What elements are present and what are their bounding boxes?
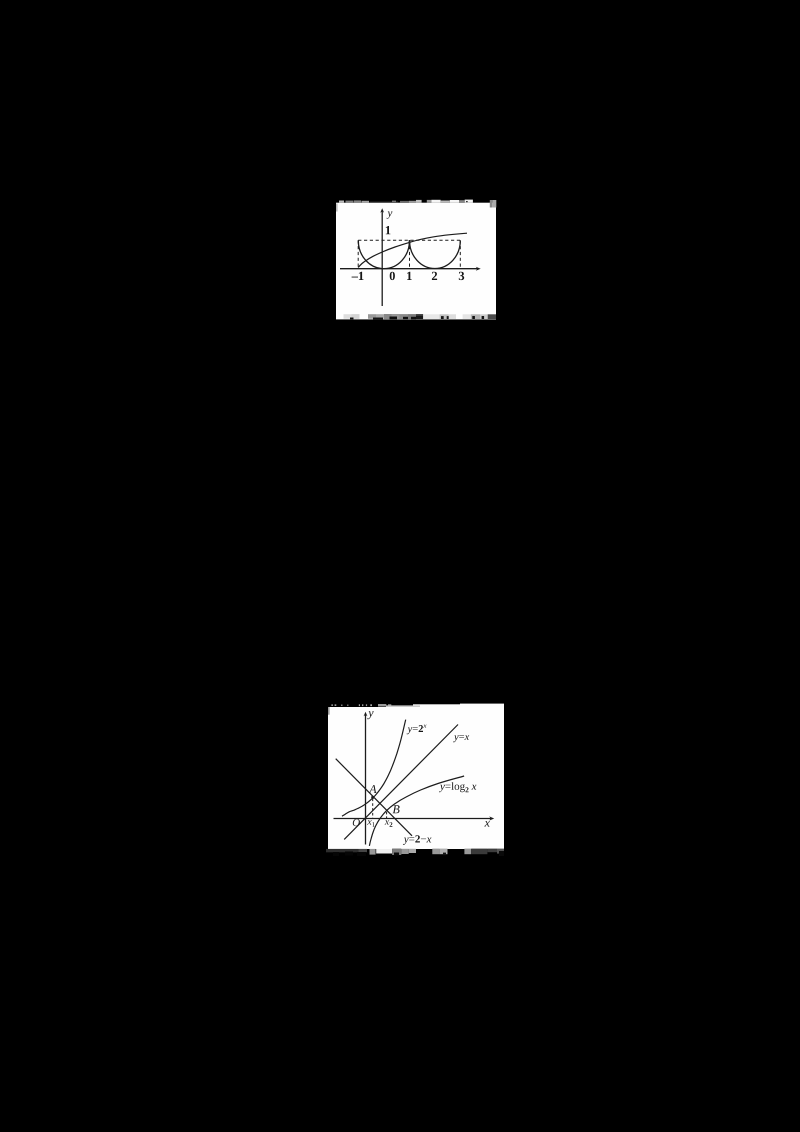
figure 1 label 0 <box>390 272 395 280</box>
figure 1 label -1 <box>352 272 364 280</box>
figure 2 x-axis <box>334 818 492 820</box>
figure 2 bottom noise band <box>326 849 504 857</box>
figure 2 y-axis <box>365 715 367 845</box>
figure 2 white panel <box>328 707 504 849</box>
figure 1 label y <box>387 211 393 218</box>
figure 2 label y=x <box>453 735 469 742</box>
figure 1 label 1 <box>407 272 412 280</box>
figure 1 semicircle arc from x=-1 to x=1 <box>358 241 409 269</box>
figure 2 label A <box>369 785 377 793</box>
figure 2 logarithm curve y=log2(x) <box>369 776 464 846</box>
figure 2 top noise band <box>328 704 420 715</box>
figure 2 point A dot <box>371 796 374 799</box>
figure 1 semicircle arc from x=1 to x=3 <box>410 241 461 269</box>
figure 2 dashed line from A to x-axis <box>372 799 374 819</box>
figure 2 exponential curve y=2^x <box>342 720 406 817</box>
figure 2 label x2 <box>385 820 393 827</box>
figure 2 label x1 <box>367 820 375 827</box>
figure 2 line y=2-x <box>336 759 412 836</box>
figure 2 x-axis arrowhead <box>489 816 494 820</box>
figure 1 dashed vertical x=1 <box>409 240 411 268</box>
figure 2 label y=log2 x <box>439 782 476 792</box>
figure 1 x-axis <box>340 268 478 270</box>
figure 2 label y=2-x <box>403 835 432 845</box>
figure 1 white panel <box>336 203 496 320</box>
figure 2 label O <box>353 819 360 826</box>
figure 1 y-axis <box>381 211 383 307</box>
figure 1 label 2 <box>432 272 437 280</box>
figure 2 label B <box>393 805 400 813</box>
figure 1 sqrt curve <box>358 233 467 267</box>
figure 2 y-axis arrowhead <box>364 712 368 717</box>
figure 1 x-axis arrowhead <box>476 267 481 271</box>
figure 1 bottom noise band <box>344 314 497 319</box>
figure 2 label x <box>485 821 490 827</box>
figure 1 dashed vertical x=3 <box>459 240 461 268</box>
figure 2 dashed tick from B to x-axis <box>386 812 388 819</box>
figure 2 white panel top-right extension <box>413 704 504 707</box>
figure 1 dashed line y=1 <box>358 239 460 241</box>
figure 2 label y=2^x <box>407 725 427 735</box>
figure 2 label y <box>367 711 373 719</box>
figure 1 y-axis arrowhead <box>380 208 384 213</box>
figure 2 line y=x <box>344 725 458 840</box>
figure 1 top noise band <box>336 200 496 212</box>
figure 1 cusp tick at (1,1) <box>409 240 411 247</box>
figure 1 dashed vertical x=-1 <box>357 240 359 268</box>
figure 1 label 3 <box>459 272 464 280</box>
figure 1 label 1 on y-axis <box>386 226 391 234</box>
